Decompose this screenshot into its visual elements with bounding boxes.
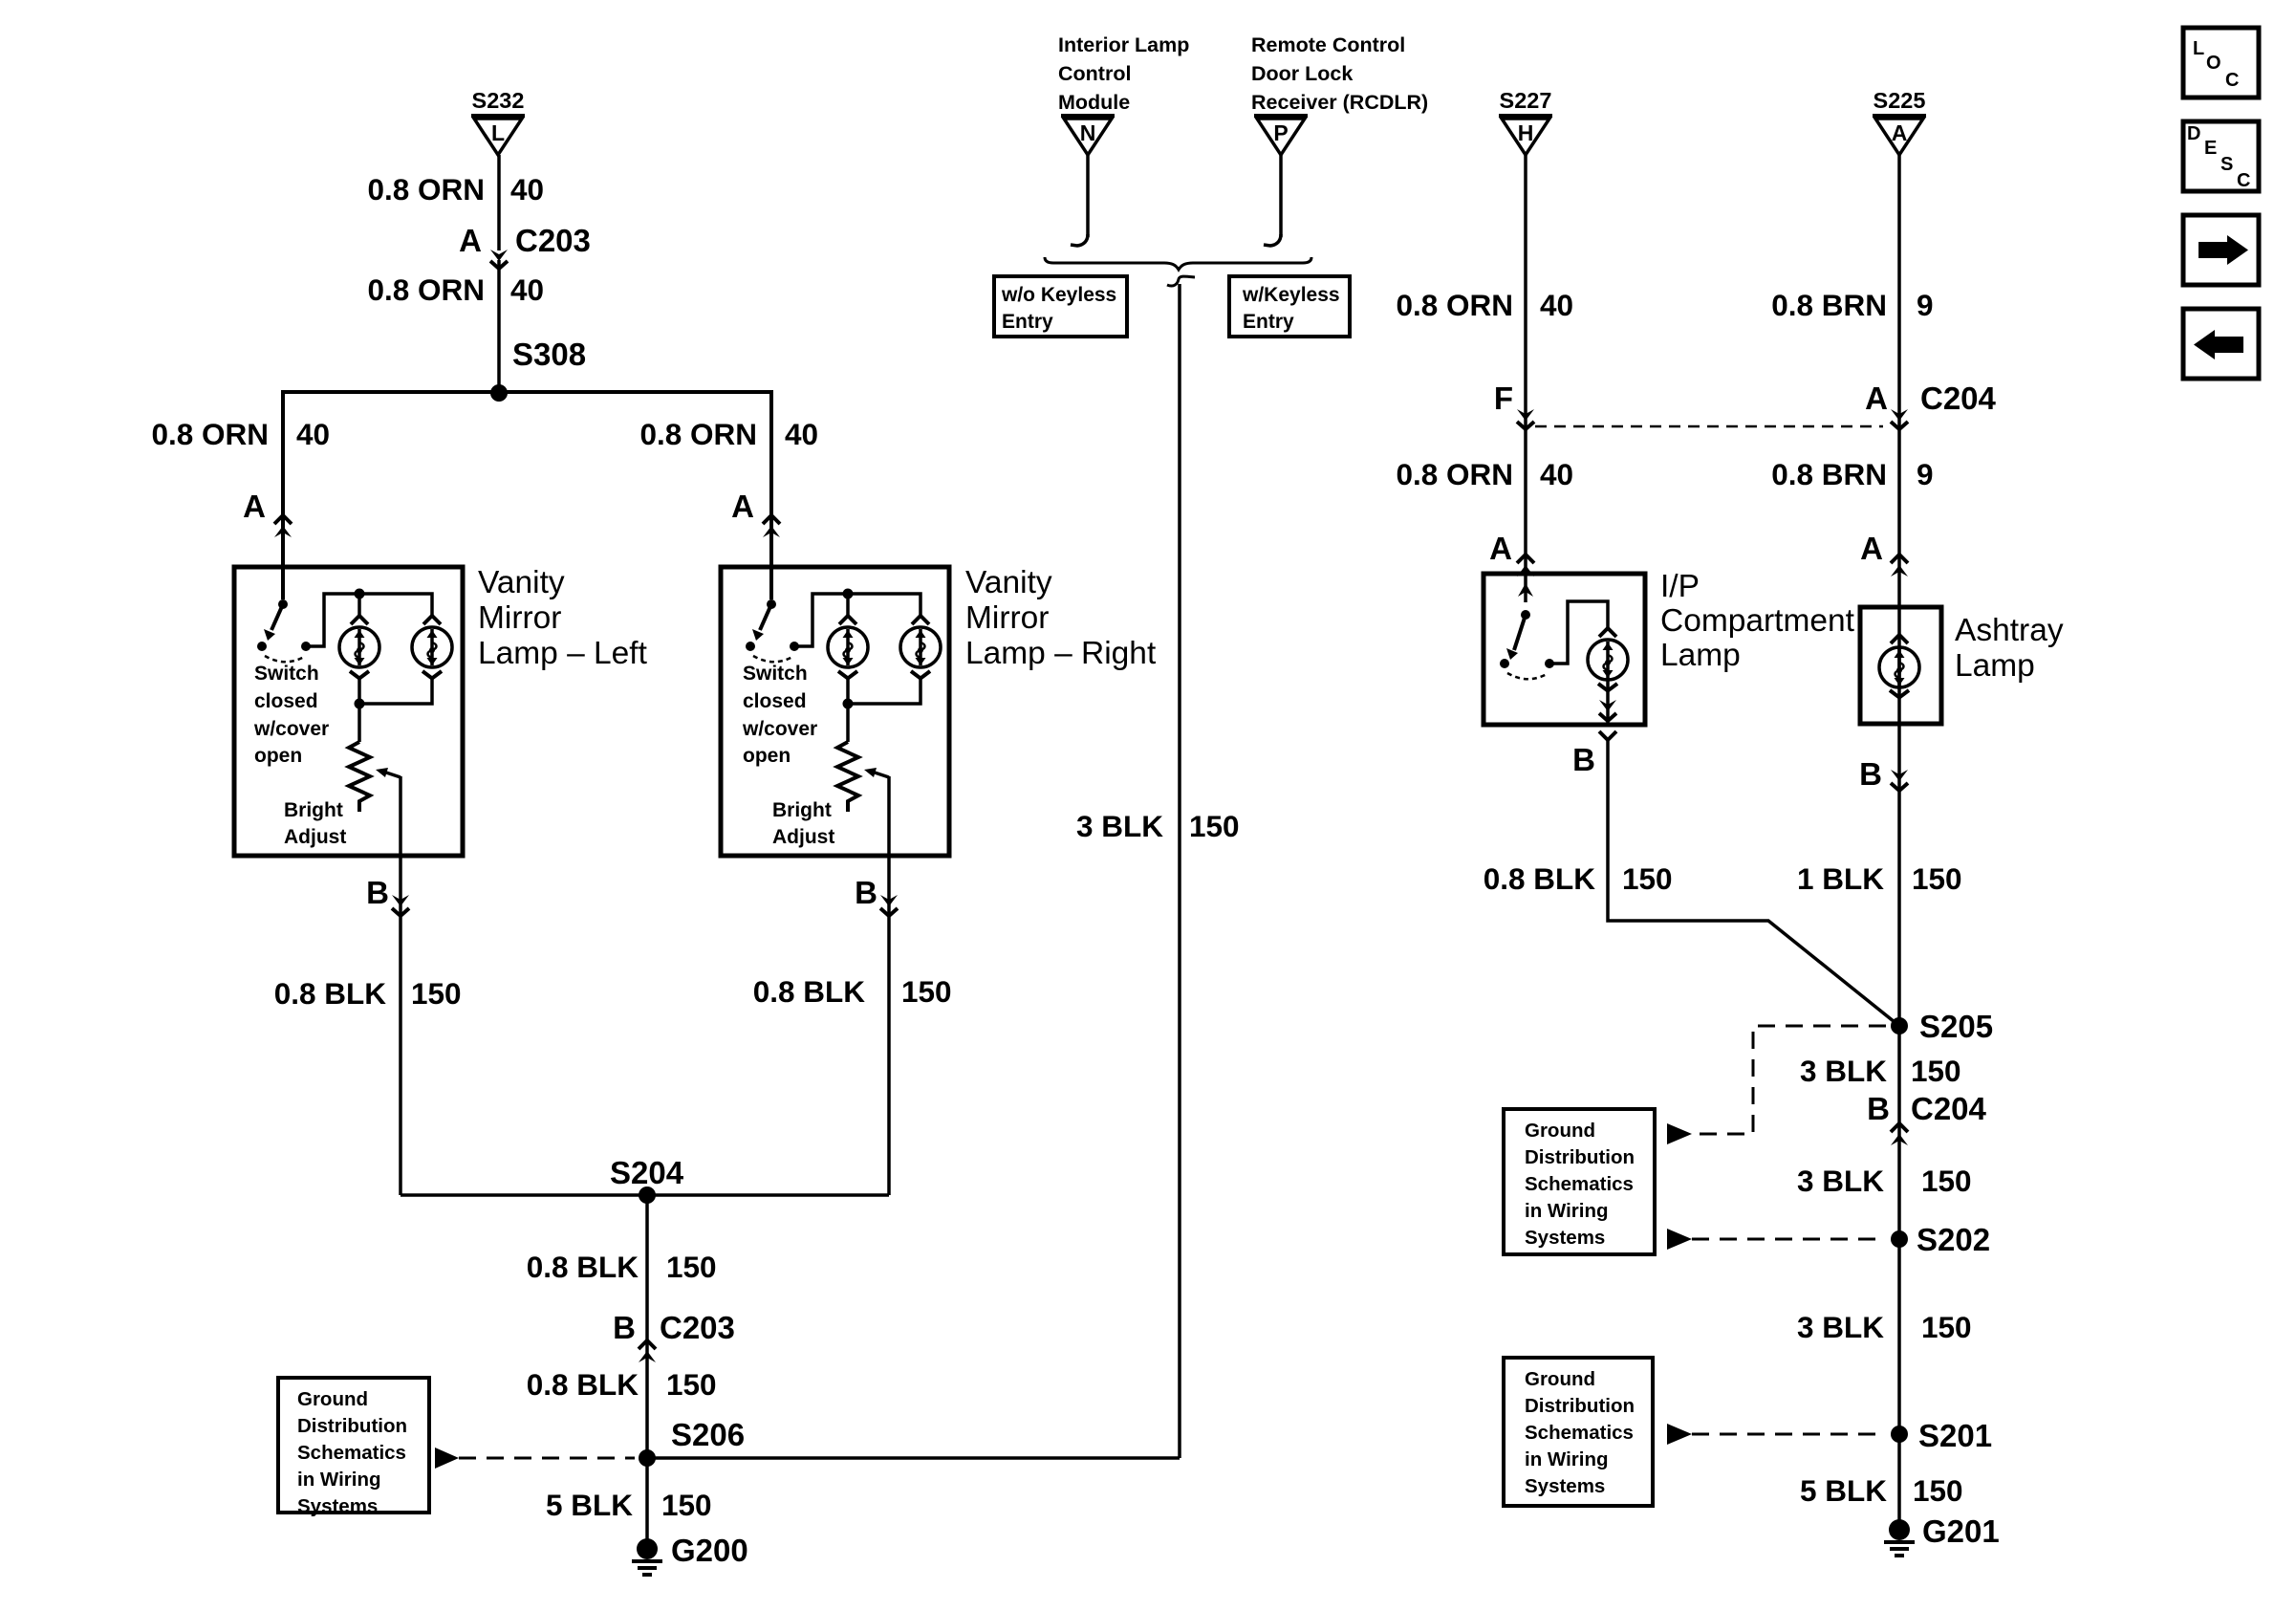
wire junction to bulb 1 — [357, 594, 361, 616]
wire bulbs to resistor (right vanity lamp) — [848, 678, 921, 742]
connector triangle S225 — [1873, 88, 1926, 155]
svg-text:L: L — [491, 120, 505, 145]
terminal symbol inside I/P box bottom (pointing down) — [1599, 700, 1616, 721]
svg-text:Adjust: Adjust — [772, 826, 834, 848]
svg-text:Receiver (RCDLR): Receiver (RCDLR) — [1251, 91, 1428, 114]
svg-text:5 BLK: 5 BLK — [546, 1488, 633, 1522]
svg-text:150: 150 — [1912, 861, 1962, 896]
svg-text:B: B — [1867, 1091, 1890, 1126]
svg-text:F: F — [1494, 381, 1513, 416]
svg-text:150: 150 — [901, 974, 952, 1009]
brace joining N and P wires — [1045, 257, 1311, 270]
wire S206 to keyless entry branch — [647, 1456, 1180, 1460]
wire label 0.8 BRN 9 (above C204 A) — [1771, 288, 1933, 322]
terminal symbol I/P pin A (pointing up) — [1517, 555, 1534, 577]
svg-text:40: 40 — [510, 272, 544, 307]
svg-text:C204: C204 — [1911, 1091, 1987, 1126]
wire from N triangle — [1086, 155, 1090, 237]
terminal chevron below I/P box — [1599, 731, 1616, 740]
svg-text:open: open — [743, 745, 791, 767]
svg-text:L: L — [2193, 38, 2204, 59]
svg-text:Door Lock: Door Lock — [1251, 62, 1353, 85]
terminal symbol pin A right (pointing up) — [763, 515, 780, 537]
wire bulb to pin B (I/P lamp) — [1606, 678, 1610, 724]
wire label 0.8 ORN 40 (left branch) — [151, 417, 330, 451]
svg-text:A: A — [459, 223, 482, 258]
wire S204 to G200 — [645, 1195, 649, 1541]
svg-text:Lamp: Lamp — [1660, 638, 1741, 673]
svg-text:C: C — [2225, 70, 2239, 91]
wire S204 bus — [401, 1193, 889, 1197]
terminal symbol ashtray pin B (pointing down) — [1891, 770, 1908, 791]
svg-text:S232: S232 — [472, 88, 525, 113]
svg-text:S204: S204 — [610, 1155, 684, 1190]
svg-text:Lamp – Right: Lamp – Right — [965, 636, 1157, 671]
ground distribution reference box (right lower) — [1504, 1358, 1653, 1506]
svg-text:w/cover: w/cover — [253, 718, 329, 740]
svg-text:Interior Lamp: Interior Lamp — [1058, 33, 1189, 56]
wire junction to bulb 3 — [846, 594, 850, 616]
svg-text:150: 150 — [1913, 1473, 1963, 1508]
svg-text:S225: S225 — [1874, 88, 1926, 113]
bulb (I/P compartment lamp) — [1588, 640, 1628, 680]
dashed reference arrow to S202 — [1667, 1229, 1886, 1250]
wire label 3 BLK 150 (S202 to S201) — [1797, 1310, 1972, 1344]
svg-text:O: O — [2206, 53, 2221, 74]
svg-text:150: 150 — [666, 1367, 717, 1402]
component name Ashtray Lamp — [1955, 613, 2064, 684]
svg-text:0.8 BLK: 0.8 BLK — [527, 1250, 639, 1284]
wire switch to bulbs (right vanity lamp) — [794, 594, 921, 646]
dashed reference arrow to S201 — [1667, 1424, 1886, 1445]
terminal chevron above I/P bulb — [1599, 628, 1616, 637]
connector triangle S227 — [1499, 88, 1552, 155]
wire from P triangle — [1279, 155, 1283, 237]
dashed reference arrow to S206 — [435, 1448, 635, 1469]
switch (I/P compartment lamp) — [1500, 610, 1554, 679]
option box w/o Keyless Entry — [994, 276, 1127, 337]
wire S232 to C203 — [497, 155, 501, 250]
connector symbol C204 F (pointing down) — [1517, 409, 1534, 429]
svg-text:Ground: Ground — [1525, 1120, 1595, 1142]
bulb 2 (left vanity lamp) — [412, 627, 452, 667]
svg-text:150: 150 — [1622, 861, 1673, 896]
switch terminal arrow inside I/P box — [1518, 583, 1533, 597]
svg-text:w/cover: w/cover — [742, 718, 817, 740]
svg-text:G201: G201 — [1922, 1513, 2000, 1549]
terminal symbol pin B left (pointing down) — [392, 895, 409, 916]
svg-text:0.8 ORN: 0.8 ORN — [151, 417, 269, 451]
label Bright Adjust (left) — [284, 799, 346, 848]
svg-text:S205: S205 — [1919, 1009, 1993, 1044]
svg-text:Distribution: Distribution — [297, 1415, 407, 1437]
splice dot S308 — [490, 384, 508, 402]
option box w/Keyless Entry — [1229, 276, 1350, 337]
svg-text:I/P: I/P — [1660, 569, 1700, 604]
wire wiper to S204 (left vanity lamp pin B) — [399, 776, 402, 1195]
svg-text:N: N — [1080, 120, 1096, 145]
connector symbol C204 B (pointing up) — [1891, 1123, 1908, 1145]
wire label 0.8 BLK 150 (left vanity B) — [274, 976, 462, 1011]
svg-text:Schematics: Schematics — [1525, 1173, 1634, 1195]
terminal chevron above bulb 2 — [423, 616, 441, 624]
svg-text:3 BLK: 3 BLK — [1797, 1310, 1884, 1344]
label Bright Adjust (right) — [772, 799, 834, 848]
splice dot S202 — [1891, 1230, 1908, 1248]
svg-text:9: 9 — [1917, 457, 1934, 491]
svg-text:S202: S202 — [1917, 1222, 1990, 1257]
terminal chevron below bulb 1 — [350, 671, 369, 679]
bulb 4 (right vanity lamp) — [900, 627, 941, 667]
node junction bottom (left vanity lamp) — [355, 699, 365, 709]
wire S227 to I/P compartment lamp — [1524, 155, 1527, 602]
svg-text:A: A — [1489, 531, 1512, 566]
ground G200 — [632, 1538, 662, 1575]
svg-text:S206: S206 — [671, 1417, 745, 1452]
dashed reference from S205 — [1667, 1026, 1886, 1144]
terminal chevron above bulb 4 — [912, 616, 929, 624]
svg-text:0.8 BRN: 0.8 BRN — [1771, 457, 1887, 491]
svg-text:9: 9 — [1917, 288, 1934, 322]
wire label 0.8 BLK 150 (right vanity B) — [753, 974, 952, 1009]
bulb 3 (right vanity lamp) — [828, 627, 868, 667]
terminal symbol pin A left (pointing up) — [274, 515, 292, 537]
svg-text:150: 150 — [661, 1488, 712, 1522]
svg-text:A: A — [1892, 120, 1908, 145]
svg-text:Control: Control — [1058, 62, 1131, 85]
svg-text:Entry: Entry — [1243, 311, 1294, 333]
wire label 3 BLK 150 (C204 B to S202) — [1797, 1164, 1972, 1198]
connector symbol C203 B (pointing up) — [639, 1340, 656, 1362]
svg-text:Remote Control: Remote Control — [1251, 33, 1405, 56]
svg-text:Lamp: Lamp — [1955, 648, 2035, 684]
wire foot under P — [1264, 234, 1281, 246]
ground distribution reference box (right upper) — [1504, 1109, 1655, 1254]
svg-text:C203: C203 — [515, 223, 591, 258]
svg-text:C203: C203 — [660, 1310, 735, 1345]
svg-text:B: B — [613, 1310, 636, 1345]
connector triangle S232 — [471, 88, 525, 155]
wire label 3 BLK 150 (S205 to C204 B) — [1800, 1054, 1961, 1088]
switch (right vanity lamp) — [742, 599, 817, 767]
component name Interior Lamp Control Module — [1058, 33, 1189, 114]
wire S225 down to G201 — [1897, 155, 1901, 1522]
svg-text:open: open — [254, 745, 302, 767]
svg-text:Lamp – Left: Lamp – Left — [478, 636, 648, 671]
svg-text:0.8 ORN: 0.8 ORN — [367, 172, 485, 207]
svg-text:Ground: Ground — [1525, 1368, 1595, 1390]
svg-text:Mirror: Mirror — [965, 600, 1049, 636]
ground distribution reference text (right upper) — [1525, 1120, 1635, 1249]
connector triangle N (Interior Lamp Control Module) — [1061, 116, 1115, 155]
svg-text:0.8 BLK: 0.8 BLK — [527, 1367, 639, 1402]
option text w/Keyless Entry — [1242, 284, 1340, 333]
component name I/P Compartment Lamp — [1660, 569, 1855, 673]
ground distribution reference box (left) — [278, 1378, 429, 1513]
component name Vanity Mirror Lamp - Right — [965, 565, 1157, 671]
wire switch to bulb (I/P lamp) — [1549, 601, 1608, 664]
svg-text:Ashtray: Ashtray — [1955, 613, 2064, 648]
svg-text:S: S — [2220, 154, 2233, 175]
wire label 0.8 ORN 40 (below C204 F) — [1396, 457, 1573, 491]
svg-text:Schematics: Schematics — [297, 1442, 406, 1464]
nav button box DESC — [2183, 121, 2259, 191]
wire label 0.8 ORN 40 (below C203) — [367, 272, 544, 307]
component box Ashtray Lamp — [1860, 607, 1941, 724]
svg-text:150: 150 — [1911, 1054, 1961, 1088]
svg-text:0.8 ORN: 0.8 ORN — [639, 417, 757, 451]
svg-text:C204: C204 — [1920, 381, 1997, 416]
terminal symbol pin B right (pointing down) — [880, 895, 898, 916]
option text w/o Keyless Entry — [1001, 284, 1116, 333]
svg-text:closed: closed — [254, 690, 318, 712]
svg-text:A: A — [243, 489, 266, 524]
node junction top (right vanity lamp) — [843, 589, 854, 599]
splice dot S204 — [639, 1186, 656, 1204]
component box Vanity Mirror Lamp - Left — [234, 567, 463, 856]
svg-text:40: 40 — [296, 417, 330, 451]
wire I/P pin B to S205 — [1608, 740, 1899, 1026]
ground G201 — [1884, 1519, 1915, 1556]
wire label 0.8 ORN 40 (above C204 F) — [1396, 288, 1573, 322]
svg-text:0.8 BLK: 0.8 BLK — [1484, 861, 1596, 896]
svg-text:E: E — [2204, 138, 2217, 159]
dashed connector line C204 — [1535, 425, 1883, 428]
svg-text:Adjust: Adjust — [284, 826, 346, 848]
potentiometer wiper arrow (right vanity lamp) — [864, 768, 889, 777]
svg-text:Ground: Ground — [297, 1388, 368, 1410]
svg-text:S201: S201 — [1918, 1418, 1992, 1453]
svg-text:Bright: Bright — [284, 799, 343, 821]
svg-text:S308: S308 — [512, 337, 586, 372]
svg-text:40: 40 — [510, 172, 544, 207]
svg-text:40: 40 — [785, 417, 818, 451]
wire label 3 BLK 150 (keyless branch) — [1076, 809, 1240, 843]
nav button box LOC — [2183, 28, 2259, 98]
svg-text:B: B — [855, 875, 877, 910]
wire label 0.8 ORN 40 (right branch) — [639, 417, 818, 451]
component box Vanity Mirror Lamp - Right — [721, 567, 949, 856]
terminal chevron below ashtray bulb — [1890, 690, 1909, 698]
wire label 5 BLK 150 (to G200) — [546, 1488, 712, 1522]
svg-text:Compartment: Compartment — [1660, 603, 1855, 639]
svg-text:150: 150 — [666, 1250, 717, 1284]
svg-text:40: 40 — [1540, 288, 1573, 322]
svg-text:C: C — [2237, 170, 2250, 191]
svg-text:A: A — [1860, 531, 1883, 566]
svg-text:Switch: Switch — [743, 663, 808, 685]
svg-text:B: B — [1572, 742, 1595, 777]
terminal symbol ashtray pin A (pointing up) — [1891, 555, 1908, 577]
wire label 5 BLK 150 (to G201) — [1800, 1473, 1963, 1508]
potentiometer wiper arrow (left vanity lamp) — [376, 768, 401, 777]
wire label 1 BLK 150 (ashtray B) — [1797, 861, 1962, 896]
wire label 0.8 BLK 150 (below C203 B) — [527, 1367, 717, 1402]
node junction top (left vanity lamp) — [355, 589, 365, 599]
svg-text:Module: Module — [1058, 91, 1130, 114]
splice dot S201 — [1891, 1426, 1908, 1443]
svg-text:Systems: Systems — [297, 1495, 378, 1517]
svg-text:0.8 BLK: 0.8 BLK — [753, 974, 866, 1009]
svg-text:0.8 BLK: 0.8 BLK — [274, 976, 387, 1011]
svg-text:S227: S227 — [1500, 88, 1552, 113]
svg-text:A: A — [731, 489, 754, 524]
wire label 0.8 BLK 150 (I/P lamp B) — [1484, 861, 1673, 896]
connector triangle P (RCDLR) — [1254, 116, 1308, 155]
wire bulbs to resistor (left vanity lamp) — [359, 678, 432, 742]
svg-text:Systems: Systems — [1525, 1475, 1605, 1497]
svg-text:0.8 BRN: 0.8 BRN — [1771, 288, 1887, 322]
nav button left arrow — [2183, 309, 2259, 379]
svg-text:P: P — [1273, 120, 1288, 145]
terminal chevron above ashtray bulb — [1891, 635, 1908, 643]
nav button right arrow — [2183, 215, 2259, 285]
terminal chevron above bulb 1 — [351, 616, 368, 624]
terminal chevron below I/P bulb — [1598, 684, 1617, 691]
svg-text:Distribution: Distribution — [1525, 1395, 1635, 1417]
terminal chevron below bulb 4 — [911, 671, 930, 679]
svg-text:Schematics: Schematics — [1525, 1422, 1634, 1444]
svg-text:150: 150 — [1921, 1310, 1972, 1344]
terminal chevron below bulb 3 — [838, 671, 857, 679]
svg-text:Switch: Switch — [254, 663, 319, 685]
svg-text:150: 150 — [1921, 1164, 1972, 1198]
terminal chevron below bulb 2 — [422, 671, 442, 679]
svg-text:in Wiring: in Wiring — [297, 1469, 381, 1491]
svg-text:1 BLK: 1 BLK — [1797, 861, 1884, 896]
ground distribution reference text (right lower) — [1525, 1368, 1635, 1497]
svg-text:3 BLK: 3 BLK — [1076, 809, 1163, 843]
wire switch to bulbs (left vanity lamp) — [306, 594, 432, 646]
svg-text:Vanity: Vanity — [478, 565, 565, 600]
splice dot S205 — [1891, 1017, 1908, 1034]
svg-text:A: A — [1865, 381, 1888, 416]
svg-text:in Wiring: in Wiring — [1525, 1200, 1609, 1222]
bulb 1 (left vanity lamp) — [339, 627, 379, 667]
switch (left vanity lamp) — [253, 599, 329, 767]
svg-text:B: B — [1859, 756, 1882, 792]
component box I/P Compartment Lamp — [1484, 574, 1645, 725]
connector symbol C204 A (pointing down) — [1891, 409, 1908, 429]
wire S308 bus to both vanity lamps — [283, 392, 771, 599]
svg-text:Distribution: Distribution — [1525, 1146, 1635, 1168]
svg-text:5 BLK: 5 BLK — [1800, 1473, 1887, 1508]
component name Vanity Mirror Lamp - Left — [478, 565, 648, 671]
component name Remote Control Door Lock Receiver (RCDLR) — [1251, 33, 1428, 114]
bulb (ashtray lamp) — [1879, 647, 1919, 687]
splice dot S206 — [639, 1449, 656, 1467]
wire C203 to S308 — [497, 260, 501, 392]
svg-text:150: 150 — [1189, 809, 1240, 843]
svg-text:3 BLK: 3 BLK — [1797, 1164, 1884, 1198]
svg-text:40: 40 — [1540, 457, 1573, 491]
wire label 0.8 BLK 150 (above C203 B) — [527, 1250, 717, 1284]
hook from brace to wire — [1167, 276, 1195, 286]
svg-text:Systems: Systems — [1525, 1227, 1605, 1249]
svg-text:w/o Keyless: w/o Keyless — [1001, 284, 1116, 306]
wire keyless entry branch down to S206 — [1178, 284, 1181, 1458]
resistor bright adjust (right vanity lamp) — [837, 742, 858, 812]
svg-text:closed: closed — [743, 690, 807, 712]
resistor bright adjust (left vanity lamp) — [349, 742, 370, 812]
svg-text:H: H — [1518, 120, 1534, 145]
svg-text:150: 150 — [411, 976, 462, 1011]
svg-text:B: B — [366, 875, 389, 910]
svg-text:in Wiring: in Wiring — [1525, 1448, 1609, 1470]
wire wiper to S204 (right vanity lamp pin B) — [887, 776, 891, 1195]
svg-text:w/Keyless: w/Keyless — [1242, 284, 1340, 306]
connector symbol C203 (in-line, pointing down) — [490, 250, 508, 269]
svg-text:Vanity: Vanity — [965, 565, 1052, 600]
svg-text:D: D — [2187, 123, 2200, 144]
svg-text:0.8 ORN: 0.8 ORN — [1396, 457, 1513, 491]
svg-text:0.8 ORN: 0.8 ORN — [1396, 288, 1513, 322]
svg-text:Bright: Bright — [772, 799, 832, 821]
svg-text:3 BLK: 3 BLK — [1800, 1054, 1887, 1088]
wire label 0.8 BRN 9 (below C204 A) — [1771, 457, 1933, 491]
svg-text:0.8 ORN: 0.8 ORN — [367, 272, 485, 307]
ground distribution reference text (left) — [297, 1388, 407, 1517]
node junction bottom (right vanity lamp) — [843, 699, 854, 709]
wire label 0.8 ORN 40 (above C203) — [367, 172, 544, 207]
svg-text:Entry: Entry — [1002, 311, 1053, 333]
terminal chevron above bulb 3 — [839, 616, 856, 624]
svg-text:G200: G200 — [671, 1533, 748, 1568]
wire foot under N — [1071, 234, 1088, 246]
svg-text:Mirror: Mirror — [478, 600, 561, 636]
